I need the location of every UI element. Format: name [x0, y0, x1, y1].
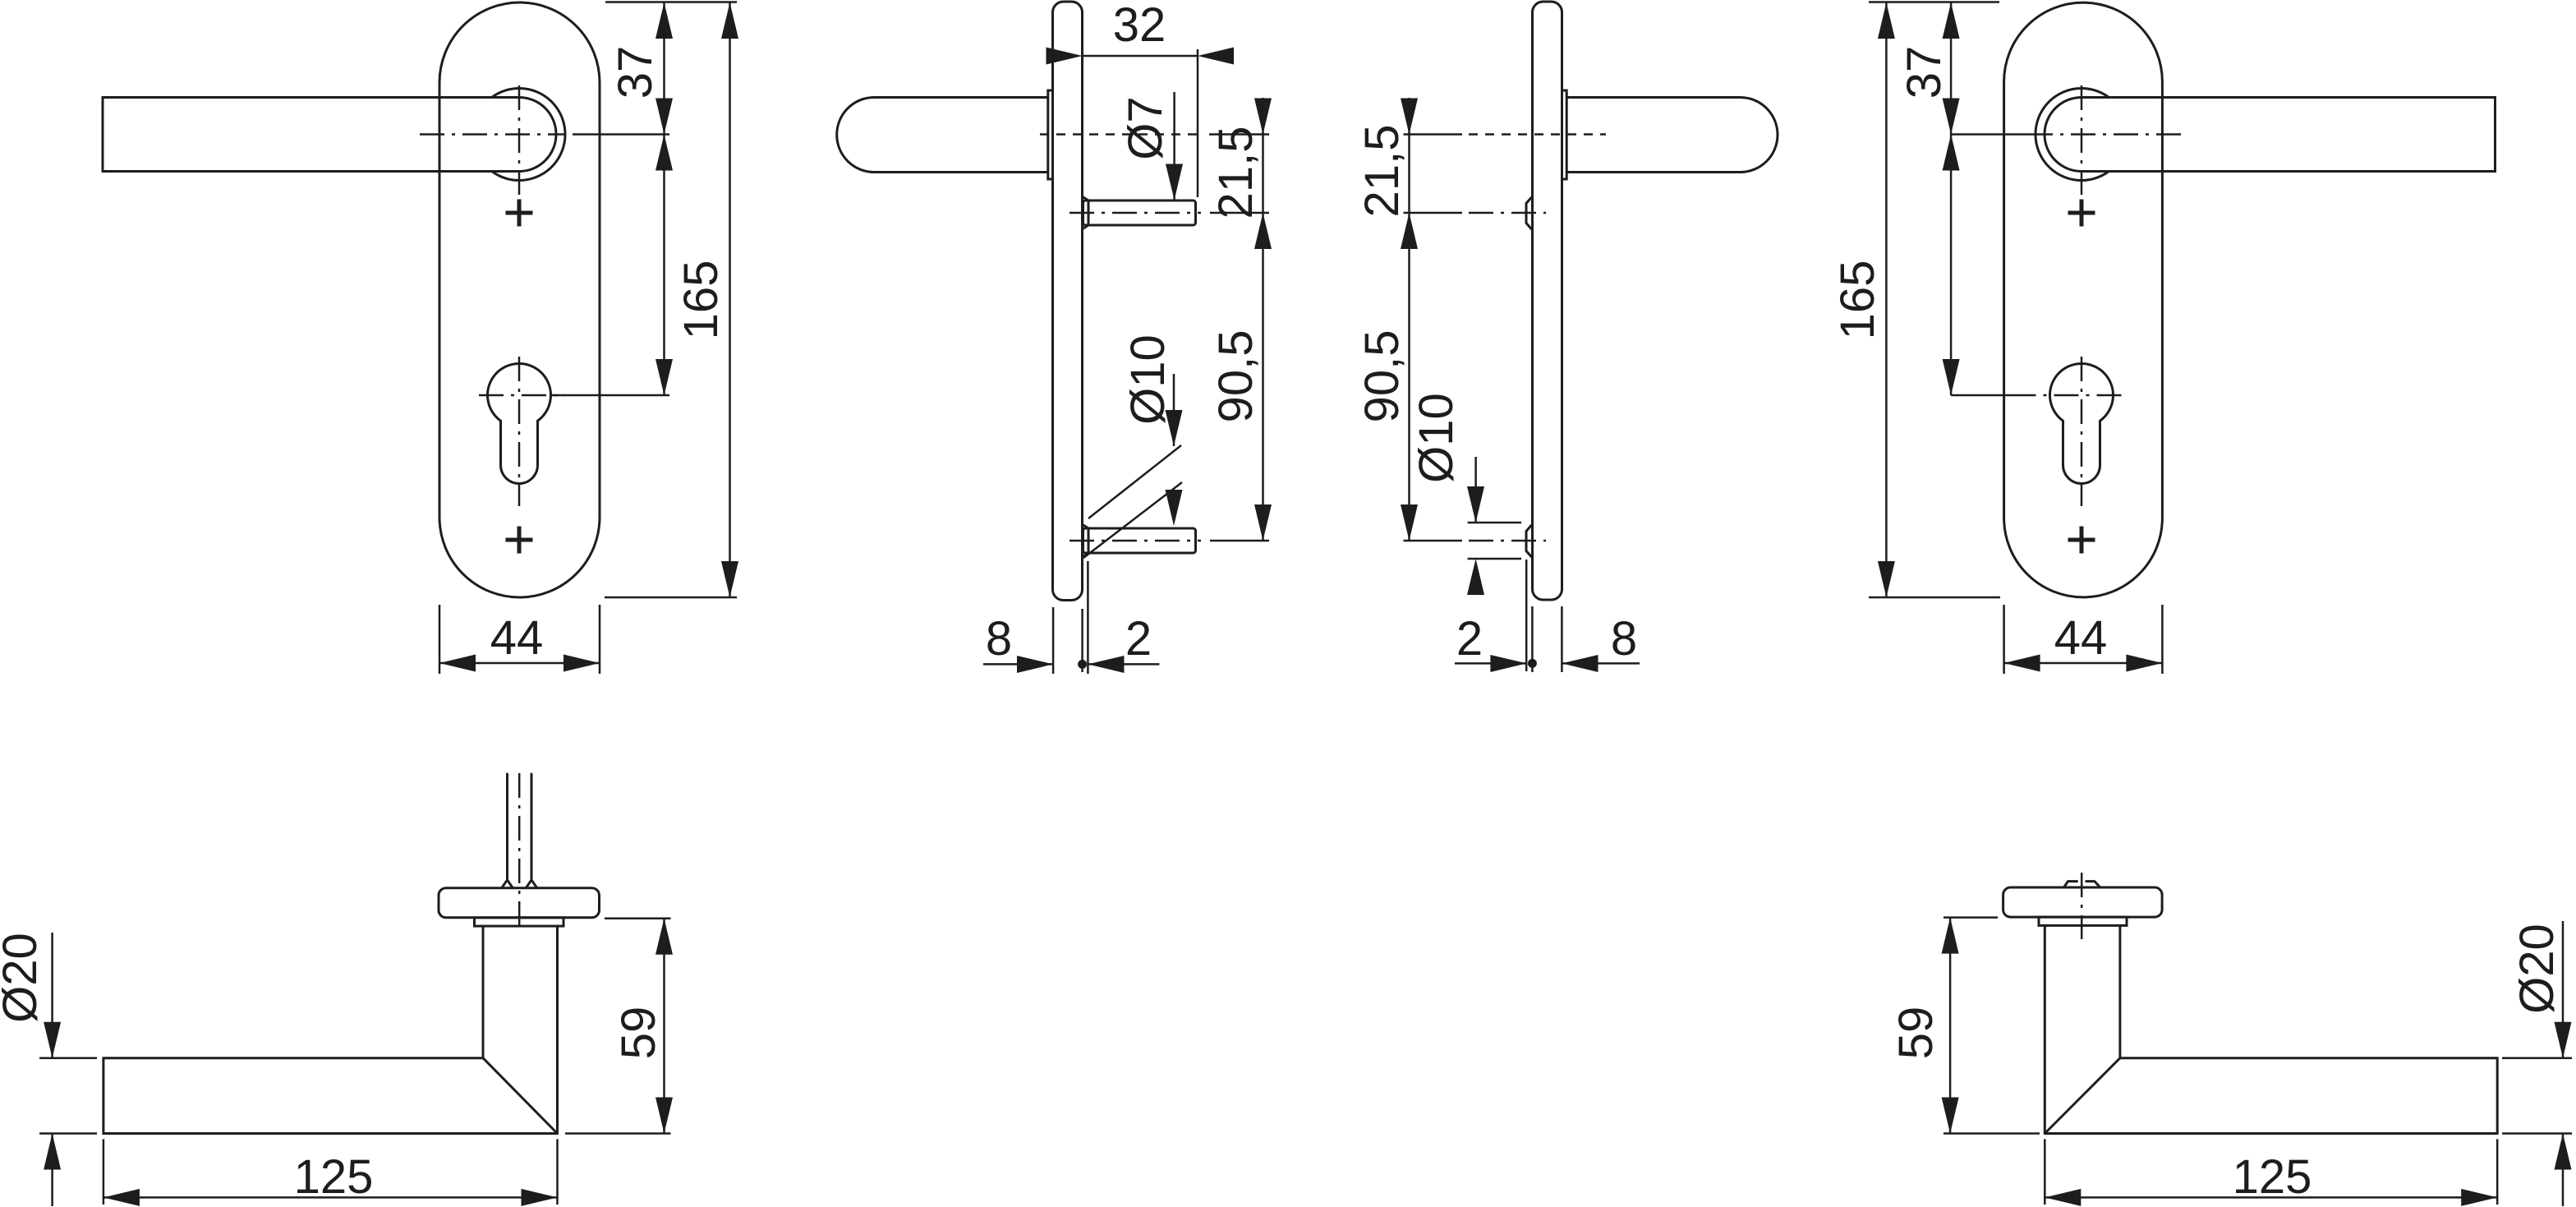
- screw mark top (cross): [506, 200, 533, 227]
- top extension line: [605, 1, 737, 3]
- bearing ring under plate: [475, 918, 564, 926]
- bottom bolt countersunk head: [1083, 525, 1088, 557]
- screw mark top (cross): [2068, 200, 2095, 227]
- svg-text:Ø20: Ø20: [0, 933, 47, 1023]
- head protrusion line: [1087, 561, 1089, 674]
- top extension line: [1869, 1, 1999, 3]
- Ø20 arrow bottom: [2555, 1134, 2572, 1170]
- arrow 44 left: [2004, 655, 2040, 672]
- arrow 125 right: [2461, 1189, 2497, 1206]
- top screw centerline: [1469, 212, 1546, 214]
- extension lines 59: [565, 919, 671, 1134]
- arrow 59 top: [655, 919, 673, 955]
- dimension line 59: [663, 919, 665, 1134]
- svg-text:90,5: 90,5: [1209, 330, 1263, 423]
- top fixing bolt cylinder: [1083, 200, 1196, 225]
- svg-text:165: 165: [674, 260, 728, 340]
- keyhole centerline extension to dim: [1951, 394, 2035, 397]
- plate outline (oval backplate): [439, 2, 600, 597]
- dimension tail 2: [1455, 662, 1526, 665]
- arrow 37 top: [1943, 2, 1960, 39]
- svg-text:90,5: 90,5: [1355, 330, 1409, 423]
- neck collar side: [1562, 90, 1567, 179]
- dimension line 59: [1949, 918, 1952, 1134]
- handle centerline extension: [1209, 133, 1269, 136]
- plate side outline: [1053, 2, 1083, 601]
- arrow 2: [1490, 655, 1526, 672]
- arrow 32 right: [1198, 48, 1234, 65]
- bottom screw centerline extension: [1404, 540, 1463, 542]
- Ø20 extension lines: [2502, 1058, 2572, 1134]
- keyhole vertical centerline: [2081, 357, 2083, 506]
- neck right edge: [556, 926, 559, 1133]
- extension line plate front: [1531, 606, 1534, 672]
- Ø20 arrow bottom: [44, 1134, 61, 1170]
- dimension line 125: [2045, 1196, 2497, 1199]
- arrow 21,5 bottom: [1254, 213, 1272, 249]
- PZ keyhole: [488, 363, 551, 483]
- grip top view outline: [103, 1058, 558, 1134]
- Ø20 dimension line top: [2562, 921, 2564, 1058]
- dimension line 37 / 72: [1950, 2, 1953, 395]
- dimension line 125: [103, 1196, 558, 1199]
- handle neck side (bar): [1566, 98, 1778, 173]
- svg-text:21,5: 21,5: [1209, 127, 1263, 219]
- arrow 32 left: [1046, 48, 1083, 65]
- svg-text:59: 59: [612, 1007, 665, 1060]
- top bolt centerline: [1069, 212, 1201, 214]
- dimension tail 2: [1088, 663, 1159, 666]
- arrow 59 bottom: [1942, 1098, 1959, 1134]
- dimension line 21,5 / 90,5: [1262, 98, 1264, 541]
- screw mark bottom (cross): [2068, 527, 2095, 554]
- handle centerline extension: [1404, 133, 1463, 136]
- Ø10 extension line top: [1468, 522, 1521, 524]
- top bolt centerline extension: [1210, 212, 1269, 214]
- svg-text:8: 8: [1611, 612, 1637, 666]
- arrow 37 bottom: [1943, 99, 1960, 135]
- dim dot shared: [1078, 660, 1087, 669]
- top screw centerline extension: [1404, 212, 1463, 214]
- arrow 44 right: [2126, 655, 2162, 672]
- miter joint line: [483, 1058, 558, 1134]
- keyhole horizontal centerline: [479, 394, 565, 397]
- top bolt countersunk head: [1083, 197, 1088, 229]
- handle vertical centerline: [518, 85, 521, 195]
- svg-text:2: 2: [1125, 612, 1152, 666]
- svg-text:125: 125: [2233, 1150, 2312, 1204]
- bearing ring under plate: [2039, 917, 2127, 925]
- arrow 165 bottom: [721, 561, 738, 597]
- bottom screw head bump: [1526, 524, 1533, 558]
- dimension line 165: [1885, 2, 1888, 597]
- arrow 72 bottom: [655, 359, 673, 395]
- arrow 90,5 bottom: [1401, 504, 1418, 541]
- arrow 21,5 bottom: [1401, 213, 1418, 249]
- bottom screw centerline: [1469, 540, 1546, 542]
- bottom extension line: [1869, 597, 2000, 599]
- extension lines 125: [2045, 1139, 2497, 1205]
- arrow 44 left: [439, 655, 476, 672]
- arrow 2: [1088, 656, 1124, 673]
- bottom extension line: [605, 597, 737, 599]
- handle neck side (bar): [837, 98, 1048, 173]
- svg-text:44: 44: [490, 611, 544, 665]
- Ø10 arrow lower: [1166, 490, 1183, 526]
- plate top view slab: [2003, 887, 2163, 917]
- lever grip bar: [2081, 98, 2495, 172]
- neck collar arc: [2035, 89, 2109, 181]
- arrow 37 bottom: [655, 99, 673, 135]
- Ø10 arrow top: [1467, 486, 1484, 523]
- arrow 8: [1562, 655, 1598, 672]
- Ø20 extension lines: [39, 1058, 97, 1134]
- lever end cap arc: [519, 98, 556, 172]
- neck collar side: [1048, 90, 1053, 179]
- svg-text:37: 37: [609, 46, 662, 99]
- keyhole centerline extension to dim: [551, 394, 669, 397]
- extension lines 44: [2004, 605, 2163, 674]
- arrow 21,5 top: [1254, 99, 1272, 135]
- svg-text:Ø10: Ø10: [1410, 393, 1463, 483]
- arrow 59 top: [1942, 918, 1959, 954]
- oblique extension line upper (hole Ø10): [1088, 445, 1181, 518]
- spindle centerline: [2081, 873, 2083, 939]
- neck collar arc: [492, 89, 565, 181]
- Ø10 leader line: [1173, 374, 1175, 446]
- keyhole vertical centerline: [518, 357, 521, 506]
- arrow 165 top: [1878, 2, 1895, 39]
- svg-text:32: 32: [1113, 0, 1166, 52]
- bottom fixing bolt cylinder: [1083, 528, 1196, 553]
- bottom bolt centerline: [1069, 540, 1201, 542]
- head protrusion line: [1525, 560, 1528, 671]
- svg-text:165: 165: [1831, 260, 1884, 340]
- arrow 8: [1017, 656, 1053, 673]
- arrow 72 bottom: [1943, 359, 1960, 395]
- arrow 21,5 top: [1401, 99, 1418, 135]
- arrow 125 left: [2045, 1189, 2081, 1206]
- miter joint line: [2045, 1058, 2120, 1134]
- top screw head bump: [1526, 196, 1533, 230]
- dimension line 8: [983, 663, 1053, 666]
- lever end cap arc: [2045, 98, 2081, 172]
- dimension tail 8: [1562, 662, 1640, 665]
- svg-text:8: 8: [986, 612, 1012, 666]
- spindle shaft: [508, 774, 532, 880]
- svg-text:Ø7: Ø7: [1119, 96, 1172, 159]
- svg-text:37: 37: [1897, 46, 1951, 99]
- Ø10 leader line: [1474, 457, 1477, 523]
- Ø20 dimension line bottom: [51, 1134, 53, 1207]
- oblique extension line lower (hole Ø10): [1083, 482, 1182, 558]
- handle horizontal centerline: [2035, 133, 2181, 136]
- Ø10 extension line bottom: [1468, 558, 1521, 560]
- arrow 72 top: [1943, 135, 1960, 171]
- svg-text:2: 2: [1456, 612, 1483, 666]
- svg-text:44: 44: [2054, 611, 2108, 665]
- dimension line 32: [1083, 55, 1198, 58]
- dimension line 44: [2004, 662, 2163, 665]
- lever grip bar: [103, 98, 519, 172]
- handle centerline extension to dim: [1951, 133, 2035, 136]
- handle vertical centerline: [2081, 85, 2083, 195]
- dimension line 44: [439, 662, 600, 665]
- svg-text:59: 59: [1889, 1007, 1943, 1060]
- spindle flare feet: [502, 880, 537, 887]
- neck right edge: [2118, 925, 2121, 1057]
- arrow 125 left: [103, 1189, 140, 1206]
- dimension line 21,5 / 90,5 right view: [1408, 98, 1410, 541]
- bottom bolt centerline extension: [1210, 540, 1269, 542]
- extension line plate front: [1052, 607, 1055, 674]
- arrow 165 bottom: [1878, 561, 1895, 597]
- plate outline (oval backplate): [2004, 2, 2163, 597]
- arrow 37 top: [655, 2, 673, 39]
- arrow 72 top: [655, 135, 673, 171]
- Ø20 arrow top: [2555, 1022, 2572, 1058]
- handle centerline extension to dim: [573, 133, 669, 136]
- dimension line 37 / 72: [663, 2, 665, 395]
- svg-text:21,5: 21,5: [1355, 125, 1409, 218]
- svg-text:Ø10: Ø10: [1121, 334, 1175, 425]
- extension lines 44: [439, 605, 600, 674]
- keyhole horizontal centerline: [2035, 394, 2122, 397]
- plate side outline: [1533, 2, 1562, 600]
- arrow 165 top: [721, 2, 738, 39]
- Ø7 arrow: [1166, 164, 1183, 200]
- neck left edge: [482, 926, 485, 1058]
- Ø20 dimension line bottom: [2562, 1134, 2564, 1207]
- Ø20 dimension line top: [51, 933, 53, 1058]
- svg-text:125: 125: [294, 1150, 374, 1204]
- arrow 59 bottom: [655, 1098, 673, 1134]
- Ø20 arrow top: [44, 1022, 61, 1058]
- neck left edge: [2044, 925, 2046, 1133]
- handle centerline dashed: [1040, 133, 1199, 136]
- extension lines 59: [1943, 918, 2040, 1134]
- dim dot shared: [1528, 659, 1537, 668]
- spindle centerline: [518, 773, 521, 931]
- plate top view slab: [439, 888, 600, 918]
- grip top view outline: [2045, 1058, 2497, 1134]
- dimension line 165: [729, 2, 731, 597]
- spindle stub flare: [2064, 882, 2100, 887]
- screw mark bottom (cross): [506, 527, 533, 554]
- extension lines 125: [103, 1139, 558, 1205]
- handle centerline dashed: [1469, 133, 1606, 136]
- PZ keyhole: [2049, 363, 2113, 483]
- extension line plate back: [1561, 606, 1563, 672]
- Ø10 arrow bottom: [1467, 559, 1484, 595]
- arrow 44 right: [563, 655, 600, 672]
- Ø7 leader line: [1173, 92, 1175, 200]
- extension line 32 (bolt end): [1197, 49, 1199, 197]
- svg-text:Ø20: Ø20: [2510, 924, 2564, 1014]
- Ø10 arrow upper: [1166, 410, 1183, 446]
- arrow 125 right: [522, 1189, 558, 1206]
- arrow 90,5 bottom: [1254, 504, 1272, 541]
- handle horizontal centerline: [420, 133, 565, 136]
- extension line plate back: [1081, 609, 1083, 672]
